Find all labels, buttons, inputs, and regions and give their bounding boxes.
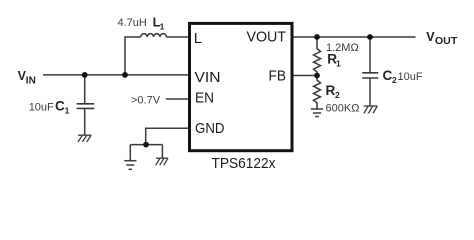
- wire ground node horizontal: [130, 144, 162, 146]
- svg-text:IN: IN: [26, 76, 36, 87]
- junction dot VIN/C1: [82, 72, 88, 78]
- junction dot VIN/L1: [122, 72, 128, 78]
- wire GND stub: [146, 128, 189, 144]
- svg-text:EN: EN: [195, 91, 214, 107]
- resistor R2: [314, 76, 321, 109]
- wire VOUT rail: [294, 36, 416, 38]
- svg-text:C: C: [383, 68, 393, 83]
- wire VIN rail: [43, 74, 189, 76]
- wire C1 branch vertical: [84, 75, 86, 103]
- svg-text:4.7uH: 4.7uH: [118, 17, 147, 29]
- ground (earth) below R2: [311, 109, 323, 117]
- wire inductor to pin L: [166, 36, 189, 38]
- wire EN stub: [166, 98, 189, 100]
- svg-text:2: 2: [335, 90, 340, 100]
- ground (earth) left of GND: [124, 161, 136, 170]
- ground (chassis) for C1: [78, 135, 91, 142]
- svg-text:10uF: 10uF: [29, 101, 54, 113]
- svg-text:VIN: VIN: [195, 70, 221, 86]
- svg-text:10uF: 10uF: [398, 71, 423, 83]
- svg-text:R: R: [326, 83, 336, 98]
- svg-text:2: 2: [392, 75, 397, 85]
- svg-text:TPS6122x: TPS6122x: [212, 156, 277, 172]
- svg-text:V: V: [426, 30, 435, 44]
- ground (chassis) for C2: [364, 106, 378, 113]
- junction node dots: [82, 34, 373, 147]
- wire to chassis ground right: [161, 145, 163, 159]
- svg-text:OUT: OUT: [435, 36, 458, 47]
- inductor L1: [141, 34, 167, 37]
- wire FB stub: [294, 75, 318, 77]
- svg-text:GND: GND: [195, 121, 225, 137]
- wire C2 branch vertical: [369, 37, 371, 72]
- svg-text:C: C: [55, 99, 65, 114]
- svg-text:1: 1: [336, 59, 341, 69]
- IC U1 TPS6122x box: [190, 23, 293, 150]
- junction dot VOUT/C2: [367, 34, 373, 40]
- svg-text:L: L: [194, 31, 202, 47]
- svg-text:>0.7V: >0.7V: [131, 95, 161, 107]
- svg-text:1: 1: [160, 21, 165, 31]
- svg-text:FB: FB: [269, 69, 287, 85]
- wire C1 to ground: [84, 108, 86, 135]
- wire C2 to ground: [369, 78, 371, 106]
- wire to earth ground left: [129, 145, 131, 161]
- svg-text:600KΩ: 600KΩ: [326, 103, 360, 115]
- resistor R1: [314, 37, 321, 76]
- wire inductor branch: [125, 37, 141, 75]
- junction dot VOUT/R1: [314, 34, 320, 40]
- junction dot FB/R1/R2: [314, 73, 320, 79]
- svg-text:VOUT: VOUT: [247, 30, 287, 46]
- svg-text:1: 1: [65, 106, 70, 116]
- capacitor C2: [362, 73, 378, 78]
- junction dot GND node: [143, 142, 149, 148]
- ground (chassis) right of GND: [156, 158, 168, 165]
- capacitor C1: [77, 104, 95, 109]
